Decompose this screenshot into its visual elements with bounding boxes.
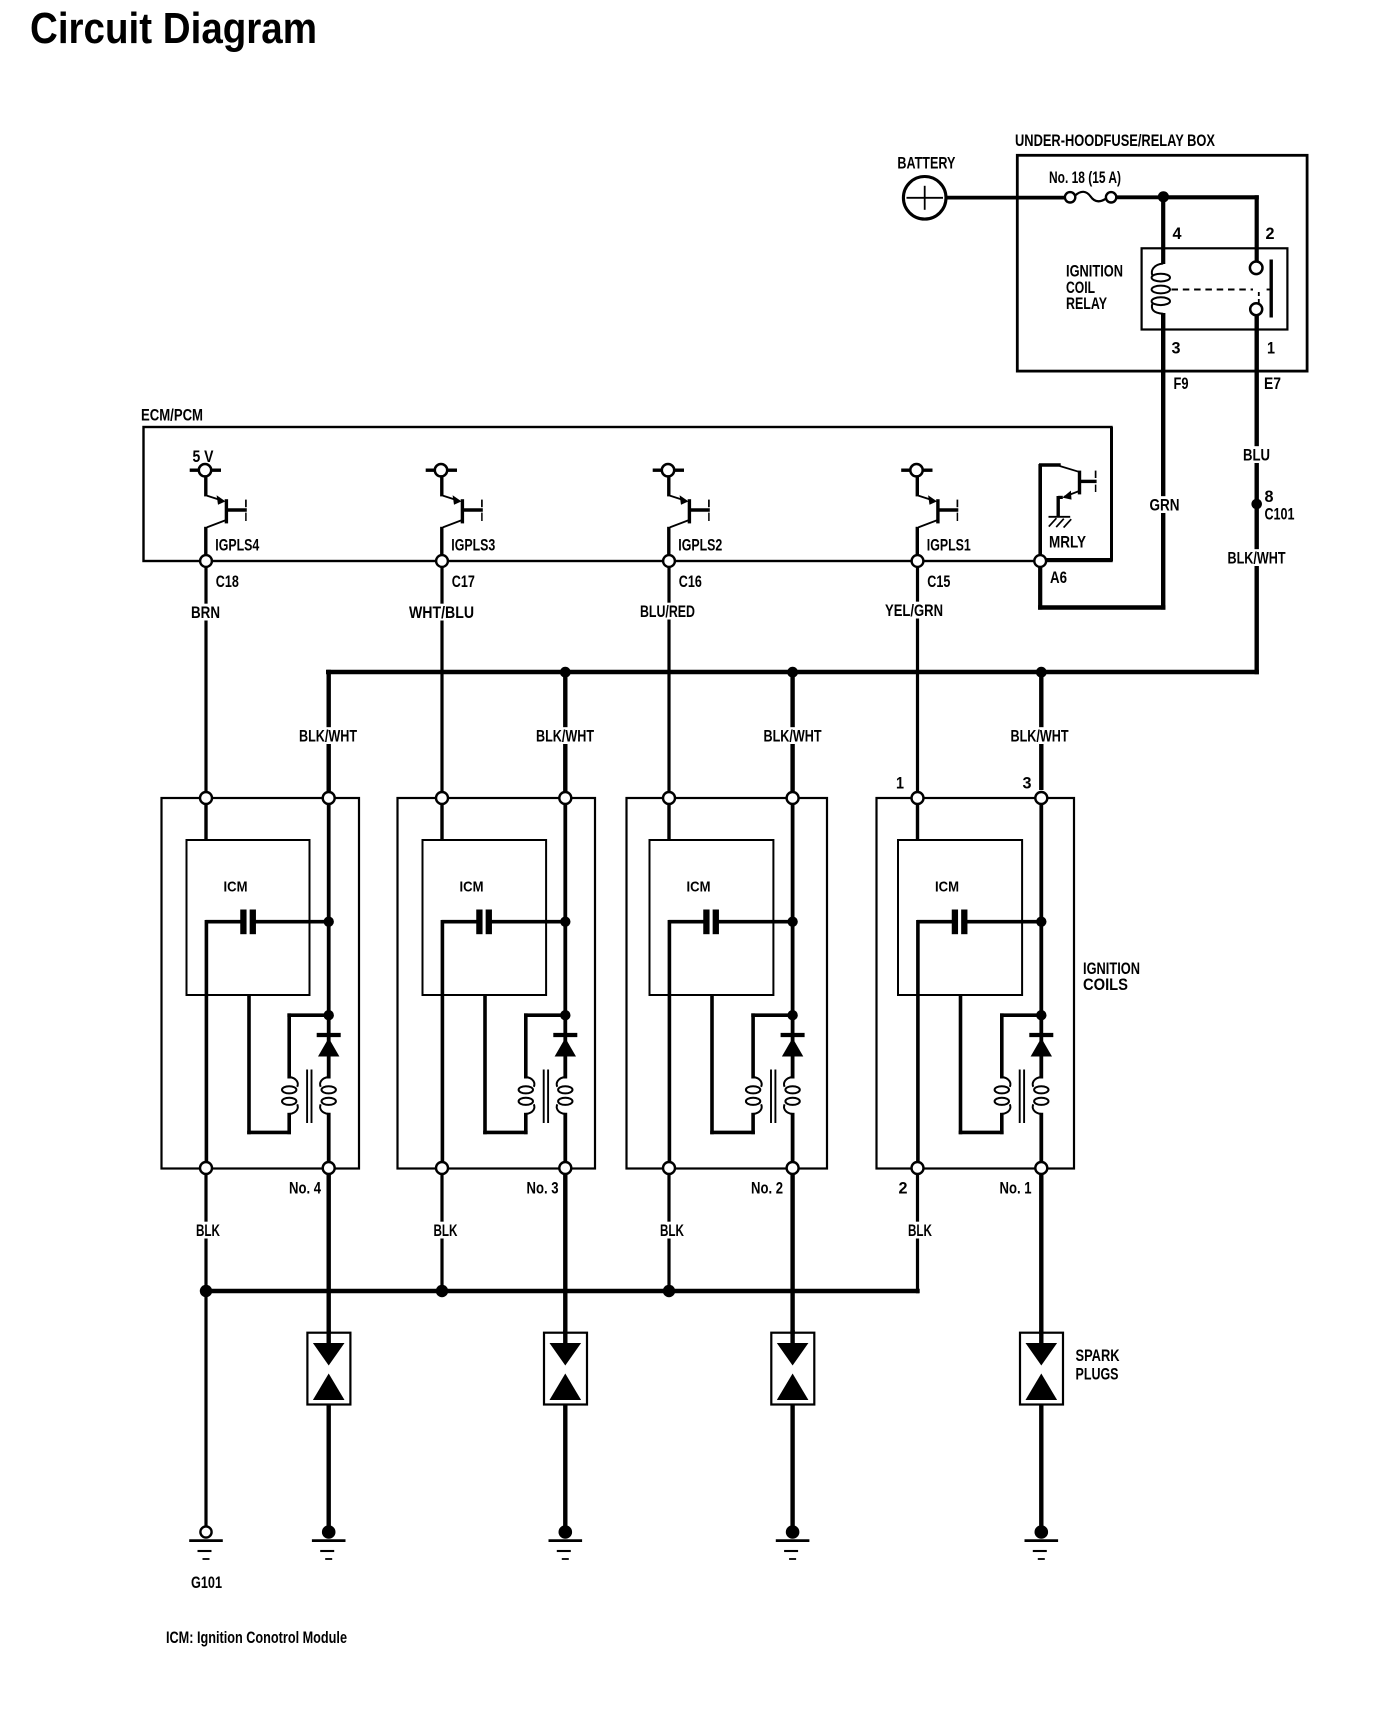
ignition coils label — [1083, 960, 1140, 994]
node ground bus junction 2 — [436, 1285, 448, 1297]
BLK/WHT bus label 2 — [534, 727, 596, 745]
wire YEL/GRN C15 to coil No.1 pin 1 — [916, 567, 919, 793]
capacitor C2 plates — [706, 910, 715, 935]
svg-text:ICM: ICM — [687, 879, 711, 896]
svg-text:COILS: COILS — [1083, 976, 1128, 994]
No. 3 secondary wire upper — [563, 1036, 567, 1079]
node C101 pin 8 — [1251, 499, 1262, 510]
No. 1 bottom right pin — [1035, 1162, 1047, 1174]
No. 3 primary top wire — [524, 1013, 565, 1017]
svg-text:MRLY: MRLY — [1049, 534, 1086, 552]
No. 4 primary top wire — [287, 1013, 328, 1017]
transformer T1 primary winding — [995, 1077, 1011, 1114]
No. 1 left rail — [916, 920, 920, 1164]
wire BLU/RED C16 to coil No.2 — [667, 567, 670, 793]
transformer T2 primary winding — [746, 1077, 762, 1114]
ICM box No. 1 — [898, 840, 1022, 995]
No. 2 primary left wire lower — [751, 1113, 755, 1134]
No. 4 bottom right pin — [323, 1162, 335, 1174]
svg-text:BLU: BLU — [1243, 447, 1270, 465]
capacitor C3 leads — [442, 920, 566, 924]
svg-text:ICM: ICM — [460, 879, 484, 896]
No. 1 input pin wire — [916, 803, 919, 841]
ground G101 — [189, 1526, 223, 1559]
transformer T4 secondary winding — [320, 1077, 336, 1114]
C17 label — [452, 573, 475, 591]
node cap junction No. 1 — [1036, 917, 1046, 927]
wire coil No.3 to spark plug — [563, 1174, 567, 1334]
capacitor C1 leads — [917, 920, 1041, 924]
svg-text:BLK: BLK — [908, 1222, 932, 1240]
C15 label — [927, 573, 950, 591]
wire down to relay pin 2 — [1255, 195, 1259, 261]
No. 1 right rail upper — [1039, 803, 1043, 1036]
svg-text:No. 18 (15 A): No. 18 (15 A) — [1049, 169, 1121, 187]
node cap junction No. 2 — [787, 917, 797, 927]
svg-text:BLK: BLK — [196, 1222, 220, 1240]
svg-text:C16: C16 — [679, 573, 702, 591]
svg-text:BLU/RED: BLU/RED — [640, 603, 695, 621]
relay contact lower pin 1 — [1250, 303, 1262, 315]
svg-text:3: 3 — [1023, 775, 1032, 793]
capacitor C4 plates — [243, 910, 252, 935]
transistor IGPLS1 — [901, 464, 958, 556]
ICM label No. 2 — [687, 879, 711, 896]
No. 3 right rail lower — [563, 1113, 567, 1164]
No. 1 primary left wire lower — [1000, 1113, 1004, 1134]
No. 1 secondary wire upper — [1039, 1036, 1043, 1079]
svg-text:ICM: ICM — [224, 879, 248, 896]
wire fuse to junction — [1116, 195, 1165, 199]
svg-text:C17: C17 — [452, 573, 475, 591]
No. 2 secondary wire upper — [791, 1036, 795, 1079]
No. 4 secondary wire upper — [327, 1036, 331, 1079]
node cap junction No. 3 — [560, 917, 570, 927]
svg-text:BLK: BLK — [660, 1222, 684, 1240]
No. 2 label — [751, 1179, 783, 1197]
capacitor C2 leads — [669, 920, 793, 924]
No. 3 input pin wire — [440, 803, 443, 841]
coil No.1 pin 2 label — [899, 1179, 908, 1197]
spark plug No.2 — [771, 1330, 814, 1405]
BRN label — [189, 604, 222, 622]
ICM label No. 3 — [460, 879, 484, 896]
wire bus drop to No.1 coil pin 3 — [1039, 672, 1043, 790]
svg-text:2: 2 — [1266, 225, 1275, 243]
No. 2 right rail lower — [791, 1113, 795, 1164]
wire GRN elbow horizontal — [1038, 605, 1165, 609]
wire A6 down — [1038, 567, 1042, 610]
No. 4 right rail lower — [327, 1113, 331, 1164]
svg-text:E7: E7 — [1264, 375, 1281, 393]
transformer T3 secondary winding — [557, 1077, 573, 1114]
wire coil No.1 to spark plug — [1039, 1174, 1043, 1334]
svg-text:IGNITION: IGNITION — [1066, 263, 1123, 281]
No. 3 bottom left pin — [436, 1162, 448, 1174]
ground spark plug No.4 — [312, 1526, 346, 1559]
svg-text:2: 2 — [899, 1179, 908, 1197]
relay contact upper pin 2 — [1250, 262, 1263, 275]
wire spark plug No.3 to ground — [563, 1405, 567, 1528]
wire BLK coil No.4 to ground — [204, 1174, 207, 1527]
node primary junction No. 3 — [560, 1010, 570, 1020]
BLK/WHT bus label 4 — [1009, 727, 1071, 745]
svg-text:BRN: BRN — [191, 604, 220, 622]
No. 2 input pin wire — [667, 803, 670, 841]
No. 4 bottom left pin — [200, 1162, 212, 1174]
ICM box No. 3 — [423, 840, 547, 995]
wire down to relay pin 4 — [1161, 195, 1165, 264]
wire battery to fuse — [946, 196, 1068, 200]
transformer T3 primary winding — [519, 1077, 535, 1114]
diode D4 — [317, 1035, 341, 1057]
svg-text:C101: C101 — [1265, 506, 1295, 524]
No. 4 input pin wire — [204, 803, 207, 841]
node bus junction 3 — [787, 667, 798, 678]
ECM/PCM box bottom-right thick edge — [1040, 558, 1113, 561]
coil No.1 pin 3 label — [1023, 775, 1032, 793]
svg-text:ECM/PCM: ECM/PCM — [141, 407, 203, 425]
BLK label 4 — [906, 1222, 934, 1240]
svg-text:Circuit Diagram: Circuit Diagram — [30, 4, 317, 53]
No. 1 top left pin — [912, 792, 924, 804]
MRLY label — [1049, 534, 1086, 552]
No. 3 bottom right pin — [559, 1162, 571, 1174]
ICM box No. 2 — [650, 840, 774, 995]
BLK/WHT bus label 1 — [297, 727, 359, 745]
node bus junction 4 — [1036, 667, 1047, 678]
connector C15 — [912, 555, 924, 567]
pin 2 label — [1266, 225, 1275, 243]
capacitor C4 leads — [206, 920, 329, 924]
svg-text:BLK/WHT: BLK/WHT — [1228, 550, 1286, 568]
spark plug No.4 — [307, 1330, 350, 1405]
ignition coil unit No. 1 box — [877, 798, 1075, 1169]
diode D2 — [781, 1035, 805, 1057]
svg-text:BLK: BLK — [434, 1222, 458, 1240]
C18 label — [216, 573, 239, 591]
IGPLS2 label — [678, 536, 722, 554]
diode D3 — [553, 1035, 577, 1057]
node bus junction 2 — [560, 667, 571, 678]
svg-text:8: 8 — [1265, 488, 1274, 506]
svg-text:3: 3 — [1172, 340, 1181, 358]
wire relay pin 1 down (BLU) — [1254, 315, 1258, 674]
svg-text:ICM: ICM — [935, 879, 959, 896]
diode D1 — [1029, 1035, 1053, 1057]
wire BRN C18 to coil No.4 — [204, 567, 207, 793]
relay K1 box — [1142, 248, 1288, 329]
connector A6 — [1034, 555, 1046, 567]
svg-text:BLK/WHT: BLK/WHT — [1011, 728, 1069, 746]
wire bus drop to No.3 coil — [563, 672, 567, 793]
pin 8 label — [1265, 488, 1274, 506]
node primary junction No. 1 — [1036, 1010, 1046, 1020]
transformer T3 core — [544, 1070, 548, 1124]
BLU/RED label — [638, 603, 697, 621]
No. 1 top right pin — [1035, 792, 1047, 804]
ECM/PCM box — [144, 427, 1112, 561]
pin 4 label — [1173, 225, 1182, 243]
No. 2 left rail — [668, 920, 672, 1164]
node cap junction No. 4 — [324, 917, 334, 927]
node primary junction No. 2 — [787, 1010, 797, 1020]
wire BLK coil No.1 to bus — [916, 1174, 919, 1294]
svg-text:1: 1 — [896, 775, 904, 793]
GRN label — [1148, 496, 1182, 514]
5 V label — [193, 448, 214, 466]
svg-text:No. 1: No. 1 — [1000, 1179, 1032, 1197]
transformer T2 core — [771, 1070, 775, 1124]
WHT/BLU label — [407, 604, 476, 622]
ICM box No. 4 — [187, 840, 310, 995]
No. 4 primary left wire lower — [287, 1113, 291, 1134]
No. 2 right rail upper — [791, 803, 795, 1036]
ICM footnote — [166, 1629, 347, 1647]
No. 2 primary top wire — [751, 1013, 792, 1017]
svg-text:YEL/GRN: YEL/GRN — [885, 602, 943, 620]
connector C17 — [436, 555, 448, 567]
battery B1 — [903, 177, 946, 220]
BLK label 2 — [432, 1222, 460, 1240]
ignition coil relay label — [1066, 263, 1123, 314]
IGPLS4 label — [215, 536, 259, 554]
BLK/WHT bus label 3 — [762, 727, 824, 745]
connector F9 label — [1174, 375, 1189, 393]
svg-text:SPARK: SPARK — [1076, 1347, 1120, 1365]
ground spark plug No.1 — [1025, 1526, 1059, 1559]
wire BLK coil No.2 to bus — [667, 1174, 670, 1291]
No. 4 primary left wire upper — [287, 1013, 291, 1078]
MRLY emitter ground — [1049, 517, 1072, 528]
transformer T1 core — [1020, 1070, 1024, 1124]
YEL/GRN label — [883, 602, 945, 620]
No. 3 top right pin — [559, 792, 571, 804]
fuse F18 — [1065, 192, 1116, 203]
No. 1 primary left wire upper — [1000, 1013, 1004, 1078]
IGPLS1 label — [927, 536, 971, 554]
BLK label 3 — [658, 1222, 686, 1240]
No. 2 bottom right pin — [787, 1162, 799, 1174]
SPARK PLUGS label — [1076, 1347, 1120, 1384]
coil No.1 pin 1 label — [896, 775, 904, 793]
svg-text:UNDER-HOODFUSE/RELAY BOX: UNDER-HOODFUSE/RELAY BOX — [1015, 132, 1215, 150]
node ground bus junction 1 — [200, 1285, 212, 1297]
under-hood fuse/relay box label — [1015, 132, 1215, 150]
wire BLK ground bus — [206, 1289, 920, 1293]
wire spark plug No.4 to ground — [327, 1405, 331, 1528]
svg-text:PLUGS: PLUGS — [1076, 1366, 1119, 1384]
svg-text:BATTERY: BATTERY — [897, 155, 955, 173]
A6 label — [1050, 569, 1067, 587]
ignition coil unit No. 4 box — [162, 798, 360, 1169]
connector E7 label — [1264, 375, 1281, 393]
No. 4 left rail — [205, 920, 209, 1164]
wire spark plug No.2 to ground — [790, 1405, 794, 1528]
transformer T1 secondary winding — [1033, 1077, 1049, 1114]
No. 2 bottom left pin — [663, 1162, 675, 1174]
svg-text:BLK/WHT: BLK/WHT — [299, 728, 357, 746]
wire bus drop to No.2 coil — [790, 672, 794, 793]
ignition coil unit No. 3 box — [398, 798, 596, 1169]
svg-text:BLK/WHT: BLK/WHT — [536, 728, 594, 746]
ECM/PCM label — [141, 407, 203, 425]
svg-text:4: 4 — [1173, 225, 1182, 243]
svg-text:RELAY: RELAY — [1066, 295, 1107, 313]
transistor IGPLS2 — [653, 464, 710, 556]
No. 2 primary left wire upper — [751, 1013, 755, 1078]
svg-text:GRN: GRN — [1150, 497, 1180, 515]
ground spark plug No.3 — [549, 1526, 583, 1559]
svg-text:IGPLS1: IGPLS1 — [927, 536, 971, 554]
BLK/WHT label right — [1226, 549, 1288, 567]
capacitor C3 plates — [479, 910, 488, 935]
No. 3 right rail upper — [563, 803, 567, 1036]
No. 1 bottom left pin — [912, 1162, 924, 1174]
No. 1 primary top wire — [1000, 1013, 1041, 1017]
node ground bus junction 3 — [663, 1285, 675, 1297]
svg-text:C18: C18 — [216, 573, 239, 591]
No. 4 label — [289, 1179, 321, 1197]
under-hood fuse/relay box — [1017, 155, 1307, 371]
No. 2 primary bottom wire — [710, 995, 755, 1134]
No. 3 primary left wire lower — [524, 1113, 528, 1134]
No. 1 label — [1000, 1179, 1032, 1197]
transformer T4 core — [307, 1070, 311, 1124]
svg-text:No. 3: No. 3 — [527, 1179, 559, 1197]
No. 1 right rail lower — [1039, 1113, 1043, 1164]
No. 4 top right pin — [323, 792, 335, 804]
wire coil No.4 to spark plug — [327, 1174, 331, 1334]
battery label — [897, 155, 955, 173]
No. 3 label — [527, 1179, 559, 1197]
No. 3 top left pin — [436, 792, 448, 804]
No. 4 primary bottom wire — [247, 995, 291, 1134]
No. 4 top left pin — [200, 792, 212, 804]
BLK label 1 — [194, 1222, 222, 1240]
fuse No. 18 (15 A) label — [1049, 169, 1121, 187]
capacitor C1 plates — [955, 910, 964, 935]
svg-text:No. 2: No. 2 — [751, 1179, 783, 1197]
ICM label No. 4 — [224, 879, 248, 896]
svg-text:BLK/WHT: BLK/WHT — [764, 728, 822, 746]
ground spark plug No.2 — [776, 1526, 810, 1559]
svg-text:IGPLS3: IGPLS3 — [451, 536, 495, 554]
relay actuation dashed line — [1172, 290, 1272, 304]
wire coil No.2 to spark plug — [790, 1174, 794, 1334]
svg-text:F9: F9 — [1174, 375, 1189, 393]
C101 label — [1265, 506, 1295, 524]
wire WHT/BLU C17 to coil No.3 — [440, 567, 443, 793]
transistor IGPLS3 — [426, 464, 483, 556]
wire BLK coil No.3 to bus — [440, 1174, 443, 1291]
BLU label — [1241, 446, 1272, 464]
svg-text:ICM: Ignition Conotrol Module: ICM: Ignition Conotrol Module — [166, 1629, 347, 1647]
pin 3 label — [1172, 340, 1181, 358]
No. 4 right rail upper — [327, 803, 331, 1036]
relay contact blade — [1269, 260, 1272, 318]
svg-text:C15: C15 — [927, 573, 950, 591]
IGPLS3 label — [451, 536, 495, 554]
transistor MRLY — [1039, 464, 1097, 556]
title — [30, 4, 317, 53]
wire relay pin 3 down (GRN) — [1161, 313, 1165, 610]
svg-text:G101: G101 — [191, 1574, 222, 1592]
wire bus drop to No.4 coil — [327, 670, 331, 793]
svg-text:WHT/BLU: WHT/BLU — [409, 604, 474, 622]
ignition coil unit No. 2 box — [627, 798, 828, 1169]
svg-text:No. 4: No. 4 — [289, 1179, 321, 1197]
svg-text:A6: A6 — [1050, 569, 1067, 587]
connector C18 — [200, 555, 212, 567]
svg-text:IGPLS2: IGPLS2 — [678, 536, 722, 554]
connector C16 — [663, 555, 675, 567]
No. 3 primary bottom wire — [483, 995, 527, 1134]
relay coil — [1152, 264, 1170, 314]
ECM/PCM box right thick edge — [1110, 427, 1113, 560]
No. 3 left rail — [441, 920, 445, 1164]
svg-text:1: 1 — [1267, 340, 1275, 358]
wire BLK/WHT bus — [326, 670, 1259, 674]
transistor IGPLS4 — [190, 464, 247, 556]
pin 1 label — [1267, 340, 1275, 358]
ICM label No. 1 — [935, 879, 959, 896]
transformer T4 primary winding — [282, 1077, 298, 1114]
No. 1 primary bottom wire — [959, 995, 1004, 1134]
spark plug No.3 — [544, 1330, 587, 1405]
G101 label — [191, 1574, 222, 1592]
wire junction to pin2 corner — [1163, 195, 1258, 199]
transformer T2 secondary winding — [784, 1077, 800, 1114]
node primary junction No. 4 — [324, 1010, 334, 1020]
wire spark plug No.1 to ground — [1039, 1405, 1043, 1528]
spark plug No.1 — [1020, 1330, 1063, 1405]
No. 3 primary left wire upper — [524, 1013, 528, 1078]
C16 label — [679, 573, 702, 591]
No. 2 top right pin — [787, 792, 799, 804]
node junction fuse output — [1158, 191, 1169, 202]
svg-text:IGPLS4: IGPLS4 — [215, 536, 259, 554]
No. 2 top left pin — [663, 792, 675, 804]
